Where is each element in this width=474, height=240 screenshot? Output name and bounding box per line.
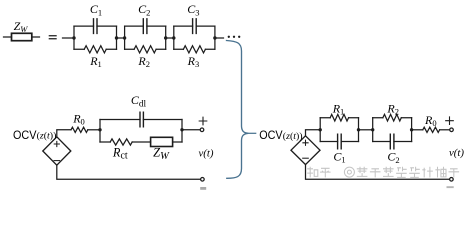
+ terminal circle (right circuit): [450, 128, 454, 132]
resistor R0 zigzag (right circuit): [423, 127, 440, 132]
plus mark (left circuit): [199, 117, 207, 125]
impedance Zw box (branch): [151, 137, 173, 146]
resistor R2 top wire segments (right): [373, 117, 412, 119]
minus sign inside diamond (left): [54, 160, 60, 162]
right tank R1/C1 left edge: [319, 118, 321, 142]
wire Zw box to right edge: [173, 141, 182, 143]
junction dot top row x=173: [172, 36, 175, 39]
brace pointer tick: [248, 132, 255, 134]
junction dot top row x=116: [115, 36, 118, 39]
minus sign inside diamond (right): [303, 157, 309, 159]
ellipsis dot x=234: [233, 36, 235, 38]
capacitor C3 plates: [193, 19, 197, 34]
wire lead into tank 1: [63, 37, 75, 39]
RC tank 1 right edge wire: [116, 26, 118, 49]
capacitor C2 top wire segments: [125, 25, 166, 27]
equals sign: [49, 36, 57, 39]
svg-text:OCV: OCV: [259, 128, 282, 142]
resistor R2 zigzag (right): [383, 114, 401, 121]
resistor R0 zigzag (left circuit): [71, 127, 88, 132]
blue curly brace grouping left model: [227, 41, 249, 179]
capacitor C2 bottom wire segments (right): [373, 141, 412, 143]
capacitor C2 plates (right): [390, 134, 394, 149]
impedance Zw symbol box: [12, 33, 32, 40]
bottom terminal circle (left circuit): [201, 178, 205, 182]
capacitor C1 plates: [94, 19, 98, 34]
Rct branch wire left: [100, 141, 110, 143]
ellipsis dot x=239: [238, 36, 240, 38]
bottom rail (right circuit): [306, 165, 450, 180]
junction dot top row x=74: [72, 36, 75, 39]
svg-text:(z(t)): (z(t)): [37, 131, 57, 142]
ellipsis dot x=228: [228, 36, 230, 38]
junction dot right circuit x=320: [319, 128, 322, 131]
+ terminal circle (left circuit): [200, 128, 204, 132]
junction dot right circuit x=358: [357, 128, 360, 131]
RC tank 2 right edge wire: [165, 26, 167, 49]
right tank R1/C1 right edge: [358, 118, 360, 142]
resistor R2 zigzag: [134, 46, 156, 53]
wire R0 to terminal (right): [440, 129, 450, 131]
plus mark (right circuit): [446, 117, 454, 125]
capacitor Cdl branch wires: [100, 119, 182, 121]
impedance Zw symbol lead left: [4, 36, 12, 38]
svg-text:v(t): v(t): [449, 147, 464, 159]
wire between right tanks: [359, 129, 373, 131]
capacitor C1 bottom wire segments (right): [320, 141, 358, 143]
capacitor C3 top wire segments: [174, 25, 215, 27]
gray watermark blob (left): [200, 187, 206, 190]
parallel section right edge wire: [181, 120, 183, 143]
RC tank 3 right edge wire: [214, 26, 216, 49]
resistor R1 top wire segments (right): [320, 117, 358, 119]
right tank R2/C2 left edge: [372, 118, 374, 142]
junction dot top row x=124: [123, 36, 126, 39]
node dot right of parallel section: [180, 128, 183, 131]
resistor R1 zigzag: [84, 46, 106, 53]
node dot left of parallel section: [98, 128, 101, 131]
wire tankB to R0 (right): [412, 129, 423, 131]
impedance Zw symbol lead right: [32, 36, 40, 38]
svg-text:v(t): v(t): [199, 147, 214, 159]
wire Rct to Zw box: [132, 141, 150, 143]
wire corner from source to tank A (right circuit): [306, 130, 321, 136]
watermark Zhihu @username (faux glyphs): [307, 167, 459, 178]
junction dot right circuit x=411: [410, 128, 413, 131]
junction dot top row x=165: [164, 36, 167, 39]
bottom terminal circle (right circuit): [450, 178, 454, 182]
right tank R2/C2 right edge: [411, 118, 413, 142]
RC tank 2 left edge wire: [124, 26, 126, 49]
capacitor C1 plates (right): [338, 134, 342, 149]
junction dot right circuit x=372: [371, 128, 374, 131]
plus sign inside diamond (left): [54, 141, 59, 146]
dependent source diamond (right circuit): [291, 136, 320, 165]
capacitor Cdl plates: [140, 112, 143, 127]
wire tank1-tank2: [117, 37, 125, 39]
resistor Rct zigzag: [110, 139, 132, 145]
output wire to + terminal (left circuit): [182, 129, 200, 131]
junction dot top row x=214: [213, 36, 216, 39]
capacitor C1 top wire segments: [74, 25, 117, 27]
wire tank2-tank3: [166, 37, 174, 39]
svg-text:OCV: OCV: [13, 128, 36, 142]
gray watermark blob (right): [447, 186, 454, 188]
resistor R3 zigzag: [183, 46, 205, 53]
resistor R1 zigzag (right): [330, 114, 348, 121]
resistor R2 bottom wire segments: [125, 48, 166, 50]
wire R0 to parallel node (left): [88, 129, 100, 131]
resistor R3 bottom wire segments: [174, 48, 215, 50]
svg-text:(z(t)): (z(t)): [283, 131, 303, 142]
bottom rail (left circuit): [57, 165, 201, 179]
plus sign inside diamond (right): [303, 140, 308, 145]
dependent source diamond (left circuit): [43, 137, 71, 165]
RC tank 1 left edge wire: [73, 26, 75, 49]
RC tank 3 left edge wire: [173, 26, 175, 49]
resistor R1 bottom wire segments: [74, 48, 117, 50]
capacitor C2 plates: [143, 19, 147, 34]
wire tank3 to ellipsis: [215, 37, 224, 39]
parallel section left edge wire: [99, 120, 101, 143]
wire corner from source to R0 (left circuit): [57, 130, 71, 137]
